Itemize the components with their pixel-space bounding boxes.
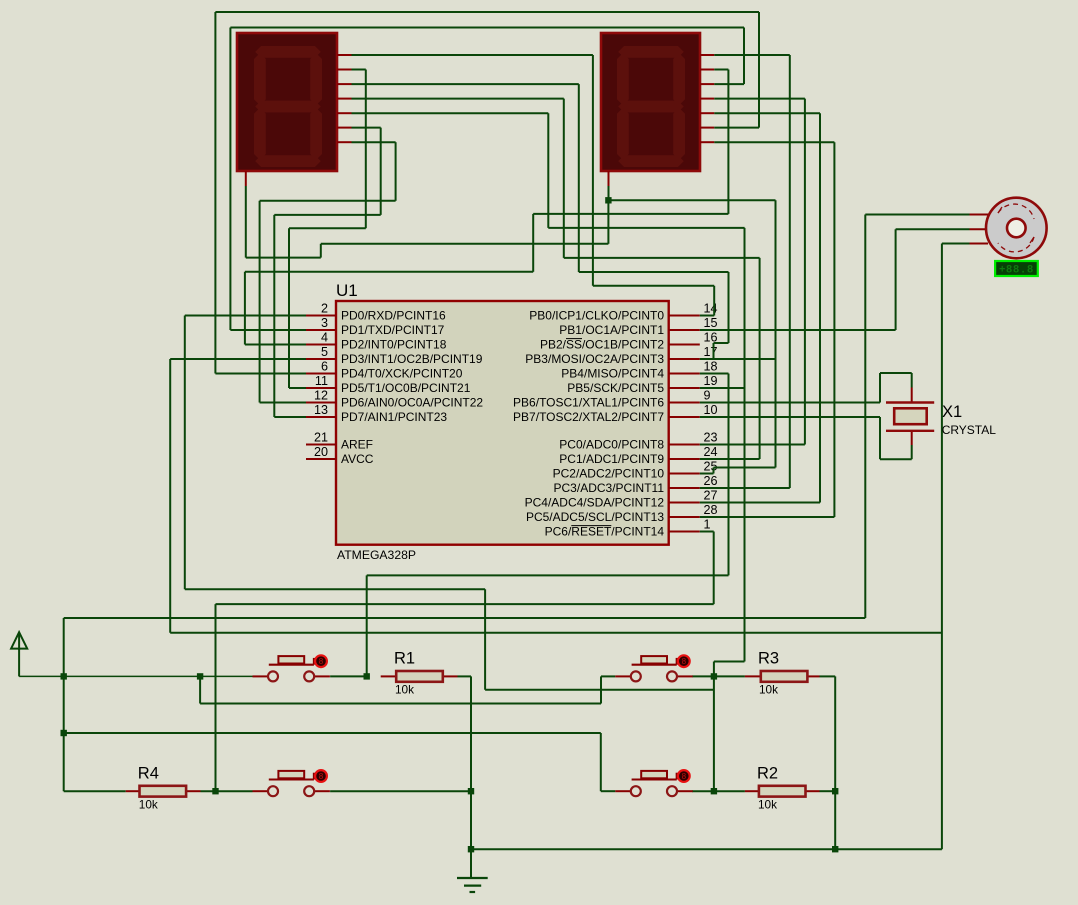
- wire pin25 PC2: [700, 473, 714, 475]
- ground symbol: [457, 878, 488, 892]
- wire commons jog riser: [320, 244, 322, 258]
- svg-text:PB0/ICP1/CLKO/PCINT0: PB0/ICP1/CLKO/PCINT0: [529, 309, 664, 323]
- wire pin1 riser: [713, 532, 715, 605]
- wire pin26 PC3: [700, 487, 790, 489]
- svg-text:28: 28: [704, 503, 718, 517]
- wire SW4 left drop: [600, 733, 602, 791]
- motor speed display: [995, 261, 1038, 276]
- svg-text:R2: R2: [757, 764, 778, 782]
- push button SW1 actuator: [269, 656, 314, 665]
- U1 right pin numbers: [704, 302, 718, 532]
- wire motor pin1: [865, 214, 969, 216]
- wire R4 node row to pin1: [216, 603, 714, 605]
- resistor R4 body: [140, 786, 187, 797]
- node ground rail tap: [468, 846, 474, 852]
- svg-text:11: 11: [315, 374, 328, 388]
- wire PD5 route: [289, 227, 366, 229]
- wire pin14 PB0: [700, 315, 714, 317]
- wire D2P4 drop: [804, 99, 806, 445]
- node SW4-R2: [711, 788, 717, 794]
- wire DS1 pin B: [352, 69, 366, 71]
- svg-text:21: 21: [314, 431, 328, 445]
- wire DS2 common east: [608, 199, 775, 201]
- U1 right pin labels: [513, 309, 664, 539]
- svg-text:+88.8: +88.8: [999, 264, 1034, 276]
- svg-text:PB1/OC1A/PCINT1: PB1/OC1A/PCINT1: [559, 323, 664, 337]
- wire crystal top jog: [880, 372, 912, 374]
- wire pin14 riser: [713, 286, 715, 316]
- wire riser PD7: [273, 215, 275, 417]
- node R2 right: [832, 788, 838, 794]
- U1 right pin stubs PC0-PC6: [669, 445, 700, 532]
- wire DS2 pin D: [714, 98, 805, 100]
- svg-text:8: 8: [682, 657, 687, 666]
- node rail right: [832, 846, 838, 852]
- wire SW1 node: [330, 675, 367, 677]
- wire commons link: [321, 243, 609, 245]
- svg-text:8: 8: [682, 772, 687, 781]
- svg-text:U1: U1: [336, 281, 358, 300]
- svg-text:1: 1: [704, 518, 711, 532]
- motor M1 body: [986, 198, 1047, 259]
- wire D2P6 riser: [758, 12, 760, 128]
- push button SW3 actuator: [269, 771, 314, 780]
- display DS1 segment pins: [337, 55, 352, 142]
- svg-text:5: 5: [321, 345, 328, 359]
- wire D1P6 drop: [380, 128, 382, 215]
- wire DS1 common jog: [246, 257, 321, 259]
- resistor R3 leads: [745, 675, 820, 677]
- wire DS2 common riser: [607, 200, 609, 244]
- wire pin15 PB1 to motor: [700, 329, 896, 331]
- svg-text:AREF: AREF: [341, 438, 373, 452]
- U1 pins 21 AREF and 20 AVCC stubs: [306, 445, 336, 460]
- push button SW4 toggle marker: [678, 770, 690, 782]
- svg-text:23: 23: [704, 431, 718, 445]
- display DS2 segment pins: [700, 55, 714, 142]
- svg-text:CRYSTAL: CRYSTAL: [942, 423, 997, 437]
- wire D2P1 drop: [789, 55, 791, 488]
- wire D1P5 route east: [548, 227, 744, 229]
- 7-segment display DS1 digit segments: [254, 46, 322, 167]
- svg-text:15: 15: [704, 316, 718, 330]
- wire pin28 PC5: [700, 516, 835, 518]
- wire D1P5 jog to SW2 node: [714, 661, 745, 663]
- svg-text:27: 27: [704, 489, 718, 503]
- wire R3 right: [820, 675, 836, 677]
- resistor R1 leads: [381, 675, 458, 677]
- svg-text:2: 2: [321, 302, 328, 316]
- wire D1P7 drop: [395, 142, 397, 201]
- svg-text:10k: 10k: [758, 797, 777, 811]
- wire pin2 PD0: [185, 315, 306, 317]
- wire motor pin3: [942, 243, 970, 245]
- svg-text:3: 3: [321, 316, 328, 330]
- U1 left pin stubs PD0-PD7: [306, 316, 336, 418]
- wire net D2P6-PD4 top: [215, 11, 759, 13]
- push button SW2 toggle marker: [678, 655, 690, 667]
- svg-text:26: 26: [704, 474, 718, 488]
- wire PB4 row under U1: [367, 574, 729, 576]
- node power drop tap: [61, 730, 67, 736]
- wire DS1 pin F: [352, 127, 381, 129]
- svg-text:PD7/AIN1/PCINT23: PD7/AIN1/PCINT23: [341, 410, 447, 424]
- wire pin12 PD6: [260, 402, 306, 404]
- resistor R2 leads: [745, 790, 820, 792]
- wire pin24 PC1: [700, 458, 760, 460]
- svg-text:PC3/ADC3/PCINT11: PC3/ADC3/PCINT11: [554, 481, 665, 495]
- motor M1 pins: [970, 215, 989, 244]
- wire D1P2 drop: [365, 70, 367, 229]
- wire riser PD5: [288, 228, 290, 388]
- svg-text:PB6/TOSC1/XTAL1/PCINT6: PB6/TOSC1/XTAL1/PCINT6: [513, 396, 664, 410]
- wire riser PD6: [259, 201, 261, 403]
- wire DS2 pin E: [714, 112, 820, 114]
- wire R1 node riser: [366, 575, 368, 676]
- wire PD3 row under U1: [170, 632, 942, 634]
- svg-text:PD5/T1/OC0B/PCINT21: PD5/T1/OC0B/PCINT21: [341, 381, 471, 395]
- wire D1P1 route east: [593, 285, 714, 287]
- push button SW2 contacts: [631, 671, 677, 681]
- svg-text:R4: R4: [138, 764, 159, 782]
- svg-text:14: 14: [704, 302, 718, 316]
- 7-segment display DS2 digit segments: [617, 46, 685, 167]
- wire pin10 XTAL2: [700, 416, 880, 418]
- wire crystal jog left top: [879, 373, 881, 403]
- wire SW4 right: [692, 790, 714, 792]
- wire motor pin2: [896, 228, 970, 230]
- svg-text:AVCC: AVCC: [341, 452, 374, 466]
- display DS2 common pin: [608, 171, 610, 186]
- wire R3 left: [714, 675, 745, 677]
- push button SW4 actuator: [632, 771, 677, 780]
- wire SW3 right to ground: [330, 790, 471, 792]
- node R4 right: [212, 788, 218, 794]
- svg-text:24: 24: [704, 445, 718, 459]
- resistor R2 body: [759, 786, 806, 797]
- U1 overline marks for SS and RESET: [566, 339, 611, 526]
- push button SW1 toggle marker: [315, 655, 327, 667]
- node DS2 common: [605, 197, 611, 203]
- wire net D2P3-PD1 top: [230, 27, 744, 29]
- svg-text:PC0/ADC0/PCINT8: PC0/ADC0/PCINT8: [559, 438, 664, 452]
- resistor R1 body: [396, 671, 443, 682]
- wire riser PD4: [214, 12, 216, 374]
- wire D1P3 drop: [578, 84, 580, 272]
- wire DS1 common drop: [245, 186, 247, 258]
- wire D2P7 drop: [833, 142, 835, 517]
- wire D1P4 drop2: [759, 258, 761, 459]
- svg-text:PC2/ADC2/PCINT10: PC2/ADC2/PCINT10: [553, 467, 665, 481]
- wire motor pin3 drop: [941, 244, 943, 850]
- svg-text:PD1/TXD/PCINT17: PD1/TXD/PCINT17: [341, 323, 445, 337]
- wire D1P3 route east: [579, 271, 729, 273]
- wire DS1 pin C: [352, 83, 579, 85]
- wire crystal bottom link: [911, 445, 913, 459]
- wire R4 left: [64, 790, 126, 792]
- svg-text:8: 8: [319, 772, 324, 781]
- power symbol arrow: [11, 632, 27, 650]
- svg-text:8: 8: [319, 657, 324, 666]
- wire riser PD2: [244, 272, 246, 345]
- wire SW4 left: [601, 790, 616, 792]
- crystal X1 body: [894, 408, 927, 424]
- wire PD0 row under U1: [185, 588, 485, 590]
- wire PD0 net jog: [485, 689, 714, 691]
- wire pin11 PD5: [289, 387, 306, 389]
- node power-SW2 tap: [197, 673, 203, 679]
- wire pin3 PD1: [230, 329, 306, 331]
- wire SW2 node drop to R2: [713, 662, 715, 792]
- node ground left: [468, 788, 474, 794]
- wire pin17 PB3: [700, 358, 776, 360]
- push button SW2 actuator: [632, 656, 677, 665]
- wire PB3 jog drop: [713, 343, 715, 359]
- wire D1P5 drop: [547, 113, 549, 228]
- wire DS2 pin G: [714, 141, 834, 143]
- wire DS2 pin B: [714, 69, 728, 71]
- wire pin6 PD4: [215, 373, 306, 375]
- wire D2P3 riser: [743, 28, 745, 85]
- wire DS2 pin F: [714, 127, 759, 129]
- wire DS2 pin C: [714, 83, 744, 85]
- wire power drop left: [63, 618, 65, 791]
- wire crystal bottom jog: [880, 458, 912, 460]
- wire SW2 left: [601, 675, 615, 677]
- wire pin5 PD3: [170, 358, 306, 360]
- wire D1P4 route east: [564, 257, 760, 259]
- wire R4 right: [201, 790, 253, 792]
- push button SW4 contacts: [631, 786, 677, 796]
- svg-text:PD4/T0/XCK/PCINT20: PD4/T0/XCK/PCINT20: [341, 367, 463, 381]
- wire D1P4 drop: [563, 99, 565, 258]
- wire power riser right: [864, 215, 866, 619]
- svg-text:PC6/RESET/PCINT14: PC6/RESET/PCINT14: [545, 525, 665, 539]
- svg-text:19: 19: [704, 374, 718, 388]
- microcontroller U1 ATMEGA328P body: [336, 301, 669, 545]
- wire DS1 pin A: [352, 54, 593, 56]
- svg-text:10k: 10k: [395, 683, 414, 697]
- wire riser PD1: [229, 28, 231, 331]
- 7-segment display DS2 body: [601, 33, 700, 171]
- svg-text:X1: X1: [942, 403, 962, 421]
- node SW1-R1: [364, 673, 370, 679]
- crystal X1 plates: [886, 403, 934, 431]
- wire PD7 route: [274, 214, 380, 216]
- wire DS2 pin A: [714, 54, 790, 56]
- wire DS2 common drop: [775, 200, 777, 467]
- svg-text:PC5/ADC5/SCL/PCINT13: PC5/ADC5/SCL/PCINT13: [526, 510, 664, 524]
- svg-text:PD3/INT1/OC2B/PCINT19: PD3/INT1/OC2B/PCINT19: [341, 352, 483, 366]
- wire D1P3 drop2: [728, 272, 730, 343]
- wire pin13 PD7: [274, 416, 306, 418]
- push button SW1 contacts: [268, 671, 314, 681]
- wire pin18 PB4: [700, 373, 729, 375]
- wire DS1 pin G: [352, 141, 396, 143]
- wire pin27 PC4: [700, 502, 820, 504]
- wire R2 left: [714, 790, 745, 792]
- U1 right pin stubs PB0-PB7: [669, 316, 700, 418]
- svg-text:PC1/ADC1/PCINT9: PC1/ADC1/PCINT9: [559, 452, 664, 466]
- U1 left pin numbers: [314, 302, 328, 460]
- svg-text:PD2/INT0/PCINT18: PD2/INT0/PCINT18: [341, 338, 447, 352]
- wire power stem: [18, 648, 20, 676]
- push button SW1 contact leads: [253, 675, 330, 677]
- push button SW2 contact leads: [615, 675, 692, 677]
- wire ground riser: [470, 676, 472, 878]
- svg-text:PB5/SCK/PCINT5: PB5/SCK/PCINT5: [567, 381, 664, 395]
- resistor R3 body: [761, 671, 808, 682]
- node SW2-R3 reset: [711, 673, 717, 679]
- wire D1P5 drop2: [744, 228, 746, 662]
- wire pin19 PB5: [700, 387, 745, 389]
- svg-text:10: 10: [704, 403, 718, 417]
- wire ground rail: [471, 848, 942, 850]
- svg-text:9: 9: [704, 389, 711, 403]
- push button SW3 contact leads: [253, 790, 330, 792]
- svg-text:PB2/SS/OC1B/PCINT2: PB2/SS/OC1B/PCINT2: [540, 338, 664, 352]
- push button SW3 toggle marker: [315, 770, 327, 782]
- wire power to SW4: [64, 732, 601, 734]
- wire R3 R2 link: [834, 676, 836, 849]
- wire pin4 PD2: [245, 344, 306, 346]
- wire DS1 pin E: [352, 112, 549, 114]
- wire SW2 right: [692, 675, 714, 677]
- wire pin23 PC0: [700, 444, 805, 446]
- wire power rail to SW1: [19, 675, 252, 677]
- wire R4 node riser: [215, 604, 217, 791]
- svg-text:12: 12: [314, 389, 328, 403]
- wire R1 right: [458, 675, 472, 677]
- crystal X1 top pin: [911, 388, 913, 403]
- wire pin25 jog drop: [713, 468, 715, 474]
- svg-text:13: 13: [314, 403, 328, 417]
- svg-text:17: 17: [704, 345, 718, 359]
- wire PD2 route west: [245, 271, 533, 273]
- wire PB4 drop: [728, 374, 730, 576]
- svg-text:PB7/TOSC2/XTAL2/PCINT7: PB7/TOSC2/XTAL2/PCINT7: [513, 410, 664, 424]
- wire D2P5 drop: [819, 113, 821, 502]
- wire PD0 drop: [184, 316, 186, 590]
- display DS1 common pin: [245, 171, 247, 186]
- wire pin9 XTAL1: [700, 402, 880, 404]
- svg-text:R1: R1: [394, 650, 415, 668]
- svg-text:6: 6: [321, 360, 328, 374]
- wire PD2 riser mid: [532, 214, 534, 272]
- svg-text:PC4/ADC4/SDA/PCINT12: PC4/ADC4/SDA/PCINT12: [525, 496, 665, 510]
- wire PD3 drop: [169, 359, 171, 633]
- wire power SW2 drop: [199, 676, 201, 703]
- svg-text:PB4/MISO/PCINT4: PB4/MISO/PCINT4: [561, 367, 664, 381]
- wire power to SW2: [200, 703, 601, 705]
- push button SW4 contact leads: [615, 790, 692, 792]
- svg-text:PD0/RXD/PCINT16: PD0/RXD/PCINT16: [341, 309, 446, 323]
- wire PD6 route: [260, 200, 396, 202]
- wire power row under U1: [64, 617, 866, 619]
- svg-text:20: 20: [314, 445, 328, 459]
- svg-text:4: 4: [321, 331, 328, 345]
- motor M1 shaft hole: [1007, 219, 1026, 238]
- crystal X1 bottom pin: [911, 431, 913, 445]
- svg-text:10k: 10k: [139, 797, 158, 811]
- 7-segment display DS1 body: [237, 33, 337, 171]
- wire PD2-D2P2 route: [533, 213, 728, 215]
- wire DS1 pin D: [352, 98, 564, 100]
- wire D2P2 drop: [727, 70, 729, 214]
- svg-text:R3: R3: [758, 650, 779, 668]
- svg-text:10k: 10k: [759, 683, 778, 697]
- wire jog PB3 route: [714, 342, 729, 344]
- push button SW3 contacts: [268, 786, 314, 796]
- wire pin1 PC6: [700, 531, 714, 533]
- wire crystal top link: [911, 373, 913, 388]
- svg-text:ATMEGA328P: ATMEGA328P: [337, 548, 416, 562]
- U1 left pin labels: [341, 309, 483, 467]
- wire motor pin2 drop: [895, 229, 897, 330]
- svg-text:18: 18: [704, 360, 718, 374]
- wire pin25 jog: [714, 467, 776, 469]
- wire reset net drop: [484, 589, 486, 690]
- wire R2 right: [820, 790, 836, 792]
- node power-SW1: [61, 673, 67, 679]
- wire SW2 left drop: [600, 676, 602, 703]
- wire crystal jog left bottom: [879, 417, 881, 459]
- wire D1P1 drop: [592, 55, 594, 286]
- wire DS2 common stub link: [608, 186, 610, 200]
- motor M1 dashed arcs: [998, 204, 1034, 252]
- svg-text:PB3/MOSI/OC2A/PCINT3: PB3/MOSI/OC2A/PCINT3: [525, 352, 664, 366]
- svg-text:PD6/AIN0/OC0A/PCINT22: PD6/AIN0/OC0A/PCINT22: [341, 396, 483, 410]
- resistor R4 leads: [126, 790, 201, 792]
